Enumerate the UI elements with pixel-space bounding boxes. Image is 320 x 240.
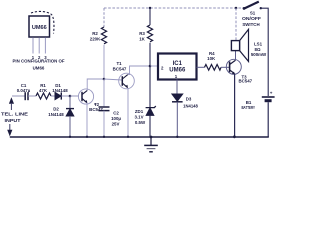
- diode D2: [66, 109, 74, 116]
- package legs: [33, 38, 45, 54]
- terminal arrow input (down): [9, 124, 11, 130]
- svg-text:+: +: [270, 91, 273, 96]
- svg-text:500mW: 500mW: [251, 52, 267, 57]
- top supply rail: [104, 7, 244, 9]
- wire IC pin3 to R4: [197, 66, 205, 68]
- junction T3 emitter rail: [233, 135, 236, 138]
- transistor T3 BC547: [226, 59, 241, 74]
- switch S1 lever: [244, 2, 259, 9]
- svg-text:BC547: BC547: [238, 79, 252, 84]
- node B junction: [103, 78, 106, 81]
- wire C2 to rail: [103, 111, 105, 137]
- node C junction: [149, 65, 152, 68]
- T2 emitter arrow: [85, 100, 88, 103]
- earth ground symbol: [144, 137, 158, 152]
- package pictorial UM66 (TO-92 top view): [29, 11, 54, 37]
- svg-text:UM66: UM66: [32, 25, 47, 31]
- wire node B to T1 base: [104, 79, 122, 80]
- wire R2 to node B: [103, 45, 105, 79]
- node A junction: [69, 95, 72, 98]
- svg-text:TEL. LINE: TEL. LINE: [1, 112, 28, 117]
- wire rail down to speaker: [235, 8, 237, 41]
- wire D3 to rail: [176, 102, 178, 137]
- IC1 UM66 box: [158, 54, 197, 80]
- zener ZD1: [146, 106, 156, 115]
- transistor T1 BC547: [119, 73, 135, 89]
- wire node C to IC pin 2: [150, 65, 158, 67]
- junction D2 rail: [69, 136, 71, 138]
- svg-text:BATTERY: BATTERY: [241, 105, 255, 110]
- svg-text:S1: S1: [250, 11, 256, 16]
- svg-text:R2: R2: [92, 31, 98, 36]
- wire R1 to D1: [51, 95, 55, 97]
- svg-text:IC1: IC1: [173, 61, 183, 67]
- wire node B down to C2: [103, 79, 105, 106]
- svg-text:25V: 25V: [112, 121, 120, 126]
- svg-text:D3: D3: [186, 96, 192, 101]
- wire R3 to node C: [149, 43, 151, 66]
- svg-text:0.5W: 0.5W: [135, 120, 146, 125]
- wire T2 emitter down to rail: [86, 103, 88, 137]
- svg-text:UM66: UM66: [169, 68, 186, 74]
- svg-text:+: +: [94, 103, 97, 108]
- ground rail (bottom): [10, 136, 269, 138]
- junction C2 rail: [103, 136, 105, 138]
- junction T1 emitter rail: [127, 136, 129, 138]
- T3 emitter arrow: [232, 72, 235, 75]
- svg-text:INPUT: INPUT: [5, 118, 21, 123]
- junction ground rail: [150, 136, 153, 139]
- wire T1 collector up to node C: [128, 66, 150, 75]
- wire IC pin1 down: [176, 80, 178, 95]
- terminal arrow input (up): [9, 97, 14, 104]
- capacitor C1: [25, 92, 28, 100]
- wire rail to R3: [149, 8, 151, 25]
- wire input to C1: [12, 95, 25, 97]
- wire ZD1 to rail: [149, 115, 151, 137]
- diode D1: [55, 92, 61, 99]
- speaker LS1: [231, 29, 248, 61]
- svg-text:1N4148: 1N4148: [52, 88, 68, 93]
- svg-text:T1: T1: [116, 61, 122, 66]
- svg-text:UM66: UM66: [33, 66, 45, 71]
- wire battery down to rail corner: [267, 102, 269, 137]
- svg-text:ZD1: ZD1: [135, 109, 144, 114]
- resistor R1: [36, 93, 51, 99]
- svg-text:1N4148: 1N4148: [48, 112, 64, 117]
- junction T2 emitter rail: [86, 136, 88, 138]
- wire T3 collector to speaker: [235, 51, 237, 61]
- svg-text:PIN CONFIGURATION OF: PIN CONFIGURATION OF: [13, 59, 65, 64]
- wire rail corner down to R2: [103, 8, 105, 27]
- svg-text:1K: 1K: [139, 37, 145, 42]
- resistor R2: [101, 27, 106, 44]
- wire C1 to R1: [28, 95, 36, 97]
- svg-text:ON/OFF: ON/OFF: [242, 16, 261, 21]
- diode D3: [172, 94, 183, 102]
- node top rail at speaker: [235, 7, 238, 10]
- wire T3 emitter down to rail: [234, 74, 236, 137]
- wire node C down to ZD1: [149, 66, 151, 107]
- svg-text:10K: 10K: [207, 56, 216, 61]
- wire node A to T2 base: [70, 95, 79, 97]
- svg-text:220K: 220K: [90, 37, 101, 42]
- svg-text:0.047µ: 0.047µ: [17, 88, 31, 93]
- svg-text:C2: C2: [113, 110, 119, 115]
- T1 emitter arrow: [125, 85, 128, 88]
- battery B1: [262, 97, 275, 101]
- svg-text:R3: R3: [139, 31, 145, 36]
- junction D3 rail: [176, 136, 178, 138]
- svg-text:SWITCH: SWITCH: [242, 22, 259, 27]
- transistor T2 BC547: [78, 89, 93, 104]
- capacitor C2 electrolytic: [99, 107, 110, 111]
- wire D1 to node A: [61, 95, 70, 97]
- wire T1 emitter down to rail: [127, 88, 129, 137]
- svg-text:D2: D2: [53, 107, 59, 112]
- resistor R3: [147, 25, 152, 42]
- svg-text:BC547: BC547: [113, 67, 127, 72]
- svg-text:3.1V: 3.1V: [134, 115, 143, 120]
- svg-text:100µ: 100µ: [111, 116, 121, 121]
- svg-text:1N4148: 1N4148: [183, 103, 198, 108]
- wire R4 to T3 base: [221, 66, 230, 68]
- svg-text:47K: 47K: [39, 88, 48, 93]
- resistor R4: [205, 65, 222, 71]
- wire T2 collector up and to node B: [87, 79, 104, 90]
- node top rail at R3: [149, 7, 151, 9]
- wire D2 to ground rail: [69, 116, 71, 137]
- wire switch to battery: [261, 8, 268, 96]
- wire node A down to D2: [69, 96, 71, 109]
